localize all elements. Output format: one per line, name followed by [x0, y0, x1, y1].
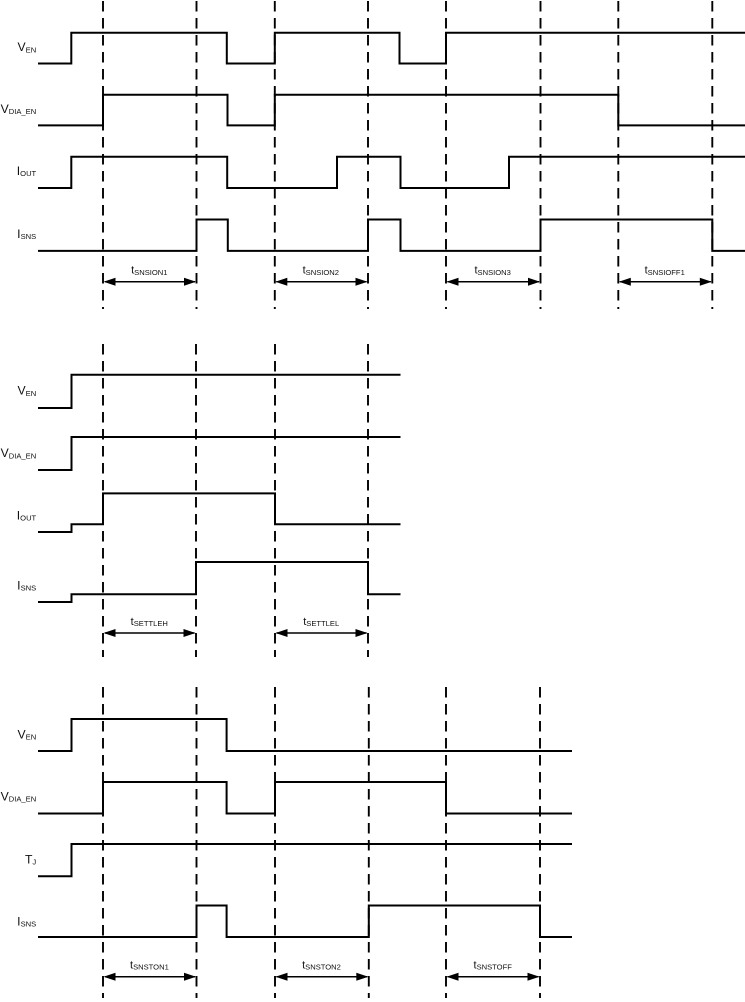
- svg-text:tSNSTON1: tSNSTON1: [130, 960, 169, 972]
- node t5 dashed line: [445, 1, 447, 309]
- wire ISNS waveform d3: [38, 906, 572, 938]
- svg-text:ISNS: ISNS: [17, 579, 36, 593]
- node t1 dashed line d2: [102, 344, 104, 657]
- wire TJ waveform d3: [38, 844, 572, 876]
- node t3 dashed line d3: [274, 687, 276, 998]
- arrow tSNSION1: [104, 278, 197, 286]
- node t7 dashed line: [617, 1, 619, 309]
- svg-text:tSETTLEH: tSETTLEH: [131, 616, 168, 628]
- node t2 dashed line d2: [195, 344, 197, 657]
- wire VEN waveform d1: [38, 33, 745, 64]
- svg-text:IOUT: IOUT: [17, 509, 37, 523]
- arrow tSNSTON1: [104, 973, 197, 981]
- node t4 dashed line d3: [368, 687, 370, 998]
- wire IOUT waveform d1: [38, 157, 745, 188]
- wire VDIA_EN waveform d3: [38, 782, 572, 814]
- svg-text:tSNSTOFF: tSNSTOFF: [474, 960, 513, 972]
- svg-text:TJ: TJ: [25, 852, 36, 866]
- node t2 dashed line d3: [196, 687, 198, 998]
- node t4 dashed line d2: [367, 344, 369, 657]
- svg-text:ISNS: ISNS: [17, 227, 36, 241]
- node t6 dashed line: [540, 1, 542, 309]
- svg-text:IOUT: IOUT: [17, 164, 37, 178]
- arrow tSNSTON2: [276, 973, 369, 981]
- svg-text:ISNS: ISNS: [17, 914, 36, 928]
- svg-text:VEN: VEN: [17, 40, 36, 54]
- wire VDIA_EN waveform d2: [38, 437, 401, 470]
- arrow tSNSION2: [275, 278, 367, 286]
- svg-text:tSNSIOFF1: tSNSIOFF1: [645, 265, 685, 277]
- node t5 dashed line d3: [445, 687, 447, 998]
- svg-text:tSNSION3: tSNSION3: [474, 265, 510, 277]
- arrow tSNSIOFF1: [619, 278, 712, 286]
- wire ISNS waveform d1: [38, 220, 745, 251]
- svg-text:VEN: VEN: [17, 384, 36, 398]
- node t2 dashed line: [196, 1, 198, 309]
- node t6 dashed line d3: [539, 687, 541, 998]
- svg-text:tSNSION2: tSNSION2: [303, 265, 339, 277]
- node t1 dashed line d3: [102, 687, 104, 998]
- svg-text:VDIA_EN: VDIA_EN: [1, 446, 37, 460]
- svg-text:VEN: VEN: [17, 728, 36, 742]
- arrow tSETTLEL: [276, 629, 368, 637]
- svg-text:tSETTLEL: tSETTLEL: [303, 616, 339, 628]
- wire VEN waveform d2: [38, 375, 401, 408]
- arrow tSNSTOFF: [447, 973, 540, 981]
- svg-text:tSNSTON2: tSNSTON2: [302, 960, 341, 972]
- svg-text:VDIA_EN: VDIA_EN: [1, 102, 37, 116]
- node t4 dashed line: [367, 1, 369, 309]
- wire VEN waveform d3: [38, 719, 572, 751]
- node t1 dashed line: [102, 1, 104, 309]
- svg-text:tSNSION1: tSNSION1: [131, 265, 167, 277]
- svg-text:VDIA_EN: VDIA_EN: [1, 790, 37, 804]
- wire ISNS waveform d2: [38, 562, 401, 602]
- node t3 dashed line: [274, 1, 276, 309]
- wire IOUT waveform d2: [38, 493, 401, 532]
- node t3 dashed line d2: [274, 344, 276, 657]
- node t8 dashed line: [711, 1, 713, 309]
- arrow tSETTLEH: [104, 629, 196, 637]
- wire VDIA_EN waveform d1: [38, 95, 745, 126]
- arrow tSNSION3: [447, 278, 541, 286]
